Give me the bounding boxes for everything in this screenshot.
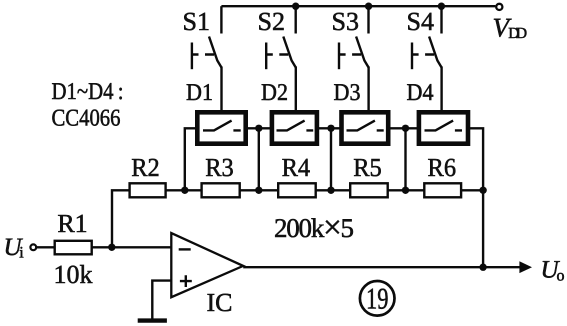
label 10k — [54, 260, 93, 289]
svg-text:10k: 10k — [54, 260, 93, 289]
svg-text:19: 19 — [366, 283, 389, 316]
label D4 — [407, 80, 434, 106]
node R3-R4 junction — [255, 187, 262, 194]
label Uo — [541, 257, 565, 285]
op-amp IC — [171, 233, 243, 297]
wire feedback row — [112, 190, 483, 247]
terminal VDD — [496, 4, 502, 10]
resistor R4 — [278, 183, 316, 197]
analog switch D3 — [342, 112, 389, 143]
node R2-R3 junction — [181, 187, 188, 194]
svg-text:S3: S3 — [332, 7, 360, 36]
node R4-R5 junction — [327, 187, 334, 194]
svg-text:S1: S1 — [183, 7, 211, 36]
terminal Ui input — [30, 244, 36, 250]
label VDD — [493, 12, 528, 42]
label S3 — [332, 7, 360, 36]
node bus-S4 junction — [438, 2, 445, 9]
ground — [138, 318, 167, 322]
svg-text:CC4066: CC4066 — [52, 106, 121, 132]
svg-text:i: i — [19, 245, 24, 262]
node R5-R6 junction — [402, 187, 409, 194]
svg-text:o: o — [557, 268, 565, 285]
node bus-S3 junction — [365, 2, 372, 9]
wire output — [243, 266, 520, 268]
svg-text:R3: R3 — [205, 153, 234, 182]
analog switch D4 — [419, 112, 468, 143]
wire noninverting input to ground — [152, 281, 171, 319]
switch S2 — [266, 6, 296, 110]
label R1 — [57, 209, 87, 238]
wire VDD bus — [221, 5, 495, 7]
svg-text:R2: R2 — [131, 153, 160, 182]
wire D1 left stub down to R2/R3 node — [185, 128, 196, 190]
svg-text:D4: D4 — [407, 80, 434, 106]
resistor R2 — [130, 183, 166, 197]
label Ui — [4, 234, 25, 262]
label S4 — [407, 7, 435, 36]
label R6 — [428, 153, 457, 182]
label S1 — [183, 7, 211, 36]
resistor R3 — [202, 183, 240, 197]
label D2 — [261, 80, 288, 106]
node bus-S2 junction — [292, 2, 299, 9]
wire drop D1-D2 to R3/R4 node — [258, 128, 260, 190]
svg-text:R1: R1 — [57, 209, 87, 238]
label R4 — [282, 153, 311, 182]
label D1~D4: — [52, 79, 124, 105]
node D3-D4 junction — [402, 125, 409, 132]
label D1 — [186, 80, 213, 106]
svg-text:R4: R4 — [282, 153, 311, 182]
label R5 — [353, 153, 382, 182]
svg-text:D3: D3 — [334, 80, 361, 106]
resistor R5 — [350, 183, 388, 197]
svg-text:S4: S4 — [407, 7, 435, 36]
node R6-output junction — [479, 187, 486, 194]
label R2 — [131, 153, 160, 182]
svg-text:DD: DD — [508, 25, 527, 42]
svg-text:IC: IC — [207, 288, 233, 317]
svg-text:S2: S2 — [258, 7, 286, 36]
analog switch D1 — [197, 112, 245, 143]
wire D4 right to output column — [469, 128, 484, 267]
label R3 — [205, 153, 234, 182]
arrow output — [519, 261, 532, 273]
svg-text:R6: R6 — [428, 153, 457, 182]
switch S1 — [192, 6, 222, 110]
label IC — [207, 288, 233, 317]
switch S4 — [412, 6, 442, 110]
node output junction — [479, 264, 486, 271]
resistor R1 — [55, 241, 92, 255]
node D1-D2 junction — [255, 125, 262, 132]
svg-text:200k×5: 200k×5 — [274, 210, 354, 246]
node D2-D3 junction — [327, 125, 334, 132]
label CC4066 — [52, 106, 121, 132]
analog switch D2 — [272, 112, 317, 143]
label D3 — [334, 80, 361, 106]
svg-text:D1~D4 :: D1~D4 : — [52, 79, 124, 105]
svg-text:R5: R5 — [353, 153, 382, 182]
svg-text:D2: D2 — [261, 80, 288, 106]
wire drop D3-D4 to R5/R6 node — [404, 128, 406, 190]
label 200k x 5 — [274, 210, 354, 246]
figure number 19 — [360, 281, 395, 316]
svg-text:D1: D1 — [186, 80, 213, 106]
switch S3 — [339, 6, 369, 110]
wire D1-D2 link — [246, 127, 271, 129]
wire D3-D4 link — [389, 127, 420, 129]
label S2 — [258, 7, 286, 36]
wire D2-D3 link — [317, 127, 341, 129]
wire drop D2-D3 to R4/R5 node — [330, 128, 332, 190]
resistor R6 — [424, 183, 461, 197]
node inverting input junction — [108, 244, 115, 251]
wire input to opamp inverting input — [36, 246, 171, 248]
